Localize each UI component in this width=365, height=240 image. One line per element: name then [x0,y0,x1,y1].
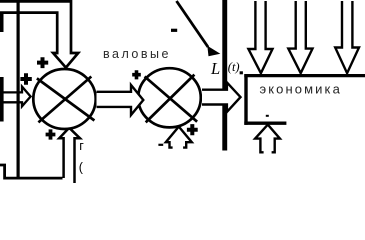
svg-text:г: г [79,139,84,153]
economy box: left edge [244,74,247,125]
dot above box-bottom arrow [266,115,269,117]
cropped bar (left edge, middle) [0,77,4,122]
dot after (t) [240,71,243,74]
hollow arrow down into box 1 [248,1,272,73]
hollow arrow S2 to box [202,82,241,112]
hollow arrow up into S1 bottom [59,128,80,183]
summator S1 X [37,77,95,123]
wire (long vertical line) [17,0,20,178]
plus sign (top input of S1) [37,57,48,68]
hollow arrow up into box bottom [255,125,280,153]
hollow arrow down into summator S1 (top input) [0,1,78,67]
cropped bar (left edge, upper) [0,0,4,32]
hollow arrow up into S2 bottom [166,127,192,148]
svg-text:экономика: экономика [260,82,342,97]
svg-text:L: L [210,59,220,78]
summator S1 circle [33,69,95,129]
thick vertical line (crop of larger figure) [222,0,227,151]
plus sign (left input of S1) [20,73,31,85]
economy box: top edge [244,74,365,77]
plus sign (left input of S2) [132,70,141,79]
summator S2 circle [138,68,201,127]
plus sign (bottom input of S2) [187,124,198,135]
hollow arrow right into summator S1 (left input) [0,87,31,107]
feedback wire (bottom left) [0,165,63,178]
plus sign (bottom input of S1) [46,129,56,139]
svg-text:валовые: валовые [103,47,171,61]
diagonal arrow (labour input) [177,1,209,47]
economy box: bottom edge [244,121,286,124]
hollow arrow S1 to S2 [97,85,144,115]
svg-text:(t): (t) [228,60,240,74]
hollow arrow down into box 2 [288,1,312,73]
minus sign (bottom input of S2) [158,144,163,146]
hollow arrow down into box 3 [335,1,359,73]
minus sign (diagonal arrow) [171,29,177,32]
summator S2 X [145,75,198,123]
